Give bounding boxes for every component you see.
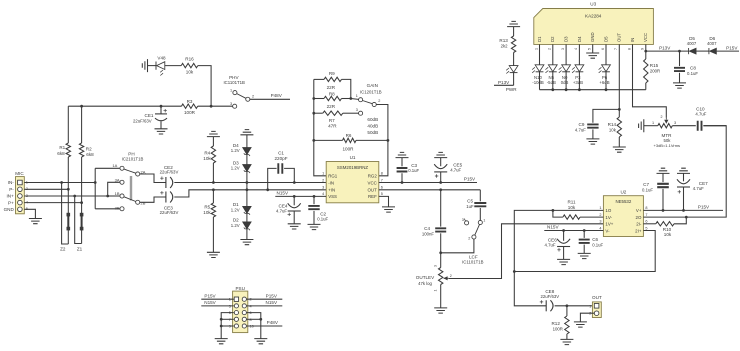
svg-text:3: 3	[434, 265, 438, 267]
svg-text:2: 2	[599, 213, 601, 217]
label P3	[575, 75, 581, 80]
ground below diodes	[240, 240, 253, 245]
ground (C6)	[578, 253, 591, 258]
label C7	[643, 182, 649, 187]
pin number 1 (U1)	[322, 172, 324, 176]
pin number 2 (MIC)	[26, 187, 28, 191]
svg-text:0.1uF: 0.1uF	[592, 242, 603, 247]
svg-text:PWR: PWR	[506, 87, 517, 92]
pin label VSS (U1)	[328, 194, 337, 199]
suppressor Z2	[62, 183, 71, 245]
junction C4 / OUT rail	[439, 188, 442, 191]
label 50dB	[367, 130, 378, 135]
svg-text:22R: 22R	[327, 85, 336, 90]
wire 1O output	[514, 210, 603, 271]
ground (PSU right)	[254, 339, 267, 344]
pin number 1 (PSU)	[229, 298, 231, 302]
svg-text:P48V: P48V	[271, 93, 283, 98]
pin label GND (MIC)	[4, 207, 15, 212]
label 0.1uF (C6)	[592, 242, 603, 247]
svg-text:-IN: -IN	[328, 180, 334, 185]
connector PSU pin 8	[242, 317, 246, 321]
junction C7 / V+	[662, 209, 665, 212]
IC U3 body	[534, 9, 654, 45]
pin label IN (U3)	[630, 38, 635, 42]
pin number 7 (PSU)	[229, 318, 231, 322]
label 0dB (N0)	[561, 80, 569, 85]
svg-text:C7: C7	[643, 182, 649, 187]
svg-text:N10: N10	[534, 75, 542, 80]
svg-text:KA2284: KA2284	[585, 14, 602, 19]
pin number 8 (U1)	[381, 172, 383, 176]
label N5	[549, 75, 555, 80]
svg-text:VCC: VCC	[368, 180, 377, 185]
svg-text:D2: D2	[550, 36, 555, 42]
svg-text:6k8: 6k8	[57, 151, 65, 156]
svg-text:SSM2019BRNZ: SSM2019BRNZ	[337, 165, 369, 170]
wire U3 OUT pin	[618, 44, 620, 109]
pin number 3 (OUTLEV)	[434, 265, 438, 267]
svg-text:-10dB: -10dB	[532, 80, 544, 85]
LED P6	[599, 44, 611, 89]
pin label D1 (U3)	[537, 36, 542, 42]
switch PHV pin1	[233, 91, 237, 95]
resistor R16	[181, 63, 198, 67]
pin number 3 (MIC)	[26, 194, 28, 198]
pin number 4 (MIC)	[26, 201, 28, 205]
pin number 3 (LCF)	[462, 218, 464, 222]
svg-text:2: 2	[548, 48, 552, 50]
label 22uF/63V (CE1)	[133, 119, 152, 124]
junction IN- / PH	[94, 181, 97, 184]
label 100R (R12)	[553, 327, 563, 332]
wire P- net	[24, 188, 68, 190]
switch PH mechanical link	[130, 176, 132, 201]
label +3dB (P3)	[573, 80, 583, 85]
label 22uF/63V (CE8)	[540, 294, 559, 299]
svg-text:1: 1	[483, 218, 485, 222]
pin number 9 (PSU)	[229, 325, 231, 329]
potentiometer OUTLEV	[439, 253, 449, 308]
svg-text:C9: C9	[579, 122, 585, 127]
svg-text:IC1201T1B: IC1201T1B	[360, 90, 382, 95]
svg-text:R13: R13	[499, 38, 508, 43]
svg-text:V48: V48	[157, 55, 166, 60]
connector PSU pin 5	[234, 311, 238, 315]
svg-text:3: 3	[561, 48, 565, 50]
op-amp U2 body	[603, 196, 643, 237]
net label P48V	[271, 93, 283, 98]
svg-text:1: 1	[434, 290, 438, 292]
svg-text:47k log: 47k log	[418, 281, 432, 286]
svg-text:IC1101T1B: IC1101T1B	[223, 80, 245, 85]
svg-text:1: 1	[599, 206, 601, 210]
wire P+ net	[24, 202, 81, 204]
capacitor CE1	[155, 106, 167, 129]
svg-text:1: 1	[322, 172, 324, 176]
svg-text:7: 7	[614, 48, 618, 50]
junction R8/R9	[349, 97, 352, 100]
svg-text:CE5: CE5	[453, 162, 462, 167]
svg-text:10k: 10k	[609, 127, 617, 132]
wire LED bus	[540, 89, 646, 91]
svg-text:3B: 3B	[115, 206, 120, 211]
label 1.2V (D3)	[231, 165, 240, 170]
junction LED bus x552	[551, 88, 554, 91]
pin number 4 (U2)	[599, 226, 601, 230]
label C6	[592, 237, 598, 242]
label R12	[551, 321, 560, 326]
label PHV	[229, 75, 239, 80]
junction R4 / rail	[212, 181, 215, 184]
pin number 2 (U3)	[548, 48, 552, 50]
resistor R13	[511, 27, 515, 66]
svg-text:N15V: N15V	[204, 300, 216, 305]
label 0.1uF (C2)	[317, 217, 328, 222]
label 1.2V (D1)	[231, 207, 240, 212]
label 22R (R9)	[327, 85, 336, 90]
label 2k2 (R13)	[501, 44, 509, 49]
svg-text:REF: REF	[368, 194, 377, 199]
svg-text:R8: R8	[329, 92, 335, 97]
label 22uF/63V (CE3)	[160, 210, 179, 215]
svg-text:2O: 2O	[636, 215, 642, 220]
ground above R13	[507, 21, 520, 26]
pin number 2 (OUT)	[589, 312, 591, 316]
capacitor CE7	[677, 173, 690, 210]
svg-text:0.1uF: 0.1uF	[408, 168, 419, 173]
pin label IN- (MIC)	[8, 180, 15, 185]
junction Z2 / IN-	[60, 181, 63, 184]
resistor R4	[211, 137, 215, 183]
svg-text:2: 2	[450, 274, 452, 278]
svg-text:U1: U1	[350, 155, 356, 160]
svg-text:OUT: OUT	[592, 295, 602, 300]
svg-text:D4: D4	[577, 36, 582, 42]
svg-text:OUTLEV: OUTLEV	[416, 275, 435, 280]
wire V+ / P15V (U2)	[643, 209, 723, 211]
label D4	[233, 143, 239, 148]
label 0.1uF (C7)	[642, 188, 653, 193]
label V48	[157, 55, 166, 60]
svg-text:4: 4	[574, 48, 578, 50]
svg-text:VSS: VSS	[328, 194, 337, 199]
ground (OUTLEV)	[434, 308, 447, 313]
LED V48	[148, 62, 182, 76]
wire OUT rail (U1)	[379, 189, 481, 191]
label 10k (R10)	[664, 232, 672, 237]
label D3	[233, 160, 239, 165]
resistor R6	[314, 138, 388, 142]
label CE5	[453, 162, 462, 167]
switch PHV pin3	[233, 104, 237, 108]
svg-text:2B: 2B	[141, 201, 146, 206]
svg-text:N5: N5	[549, 75, 555, 80]
ground (C8)	[673, 83, 686, 88]
svg-text:P13V: P13V	[498, 80, 510, 85]
pin number 7 (U2)	[645, 213, 647, 217]
junction Z1 / IN+	[73, 195, 76, 198]
label CE2	[164, 165, 173, 170]
pin label +IN (U1)	[328, 188, 335, 193]
label PH	[128, 152, 134, 157]
junction R5 / rail	[212, 188, 215, 191]
switch PH pin 2A	[136, 172, 140, 176]
net label N15V (U2)	[547, 225, 559, 230]
wire phantom top rail	[68, 105, 181, 107]
svg-text:100R: 100R	[184, 110, 196, 115]
resistor R2	[79, 106, 83, 243]
net label N15V (PSU4)	[266, 300, 278, 305]
pin number 2 (OUTLEV)	[450, 274, 452, 278]
svg-text:10k: 10k	[203, 156, 211, 161]
svg-text:P15V: P15V	[266, 293, 278, 298]
label +6dB (P6)	[599, 80, 609, 85]
label 60dB	[367, 117, 378, 122]
label CE7	[699, 181, 708, 186]
wire VSS / N15V	[275, 195, 326, 197]
svg-text:7: 7	[645, 213, 647, 217]
wire wiper to U2 1V+	[449, 224, 604, 279]
label KA2284	[585, 14, 602, 19]
label D6	[709, 36, 715, 41]
label 4.7uF (CE4)	[276, 208, 287, 213]
svg-text:3: 3	[356, 108, 358, 112]
net label P15V (U2)	[698, 205, 710, 210]
label 0.1uF (C3)	[408, 168, 419, 173]
label 10k (R11)	[568, 205, 576, 210]
svg-text:1.2V: 1.2V	[231, 148, 240, 153]
resistor R14	[617, 109, 621, 147]
pin number 3 (PHV)	[230, 102, 232, 106]
wire PH 1B stub	[108, 195, 120, 197]
svg-text:N15V: N15V	[277, 191, 289, 196]
ground (C2)	[308, 224, 321, 229]
svg-text:3: 3	[322, 186, 324, 190]
capacitor C7	[657, 173, 669, 210]
pin label D5 (U3)	[603, 36, 608, 42]
label -5dB (N5)	[547, 80, 556, 85]
svg-text:3: 3	[599, 220, 601, 224]
svg-text:220pF: 220pF	[274, 156, 287, 161]
label 4.7uF (C10)	[695, 111, 706, 116]
junction C6 / V-	[583, 229, 586, 232]
svg-text:100R: 100R	[343, 147, 355, 152]
svg-text:4.7uF: 4.7uF	[545, 243, 556, 248]
label R8	[329, 92, 335, 97]
capacitor C4	[435, 190, 446, 253]
label PSU	[235, 286, 244, 291]
svg-text:2: 2	[661, 115, 663, 119]
junction LED bus x606	[605, 88, 608, 91]
pin number 2 (LCF)	[468, 237, 470, 241]
svg-text:1: 1	[230, 88, 232, 92]
LED N0	[559, 44, 571, 89]
label 0.1uF (C8)	[687, 71, 698, 76]
svg-text:CE6: CE6	[548, 237, 557, 242]
switch GAIN pin2	[372, 102, 376, 106]
ground (V48 LED)	[142, 59, 147, 72]
label IC1101T1B (LCF)	[462, 260, 484, 265]
svg-text:GND: GND	[590, 32, 595, 42]
pin number 7 (U1)	[381, 178, 383, 182]
label 6k8 (R1)	[57, 151, 65, 156]
svg-text:1A: 1A	[112, 163, 117, 168]
capacitor C6	[579, 231, 590, 254]
label +3dB=1.1Vrms	[654, 143, 681, 148]
ground below R5	[207, 252, 220, 257]
wire PSU pin2 P15V	[247, 298, 283, 300]
junction VCC / R15	[644, 50, 647, 53]
svg-text:5: 5	[381, 192, 383, 196]
pin number 5 (MIC)	[26, 207, 28, 211]
pin number 8 (U3)	[627, 48, 631, 50]
label 4007 (D6)	[707, 41, 717, 46]
wire IN+ net	[24, 195, 107, 197]
resistor R11	[553, 210, 604, 219]
svg-text:4007: 4007	[707, 41, 717, 46]
svg-text:100R: 100R	[553, 327, 563, 332]
net label N15V (U1)	[277, 191, 289, 196]
ground (CE6)	[557, 259, 570, 264]
pin label GND (U3)	[590, 32, 595, 42]
svg-text:5: 5	[645, 226, 647, 230]
switch PHV pin2	[246, 97, 250, 101]
wire 2O output	[643, 126, 726, 217]
svg-text:4007: 4007	[687, 41, 697, 46]
ground above R4	[207, 131, 220, 136]
svg-text:1: 1	[356, 94, 358, 98]
pin label 1V- (U2)	[605, 215, 612, 220]
svg-text:1V+: 1V+	[605, 222, 613, 227]
label 47k log (OUTLEV)	[418, 281, 432, 286]
net label P13V (PWR)	[498, 80, 510, 85]
junction R6 / RG2	[387, 139, 390, 142]
svg-text:N0: N0	[562, 75, 568, 80]
pin number 5 (U3)	[588, 48, 592, 50]
switch GAIN lever	[363, 101, 373, 104]
svg-text:Z1: Z1	[77, 247, 83, 252]
net label P15V (PSU1)	[204, 293, 216, 298]
pin number 3 (PSU)	[229, 304, 231, 308]
label R16	[185, 57, 194, 62]
label 220pF (C1)	[274, 156, 287, 161]
svg-text:47R: 47R	[328, 124, 337, 129]
pin label OUT (U3)	[617, 33, 622, 42]
pin label D4 (U3)	[577, 36, 582, 42]
connector MIC body	[16, 177, 25, 214]
label R9	[329, 71, 335, 76]
svg-text:C5: C5	[467, 199, 473, 204]
pin number 2 (PSU)	[250, 298, 252, 302]
label R15	[650, 63, 659, 68]
capacitor C10	[698, 121, 727, 131]
label U3	[590, 2, 596, 7]
pin label VCC (U1)	[368, 180, 377, 185]
label 1uF (C5)	[466, 204, 474, 209]
svg-text:P13V: P13V	[659, 45, 671, 50]
pin label OUT (U1)	[368, 188, 378, 193]
svg-text:OUT: OUT	[368, 188, 378, 193]
svg-text:2k2: 2k2	[501, 44, 509, 49]
svg-text:1O: 1O	[605, 208, 611, 213]
svg-text:6: 6	[601, 48, 605, 50]
svg-text:N15V: N15V	[547, 225, 559, 230]
pin number 8 (PSU)	[250, 318, 252, 322]
pin number 10 (PSU)	[250, 325, 254, 329]
capacitor CE5	[434, 158, 447, 183]
switch PH pin 1B	[120, 194, 124, 198]
junction C8 / P13V	[678, 50, 681, 53]
connector MIC pin 1	[18, 180, 23, 185]
pin number 3 (GAIN)	[356, 108, 358, 112]
label MIC	[15, 171, 24, 176]
svg-text:P3: P3	[575, 75, 581, 80]
wire rail +IN	[213, 189, 326, 191]
svg-text:D3: D3	[564, 36, 569, 42]
connector MIC pin 3	[18, 194, 23, 199]
wire PSU pin4 N15V	[247, 305, 283, 307]
svg-text:2: 2	[252, 94, 254, 98]
label GAIN	[367, 83, 378, 88]
label 22uF/63V (CE2)	[160, 170, 179, 175]
op-amp U1 body	[326, 162, 379, 203]
diode D1	[243, 206, 252, 222]
junction LED bus x566	[565, 88, 568, 91]
label OUTLEV	[416, 275, 435, 280]
label 50k (MTR)	[664, 138, 672, 143]
ground (R12)	[560, 339, 573, 344]
svg-text:9: 9	[641, 48, 645, 50]
svg-text:22uF/63V: 22uF/63V	[160, 210, 179, 215]
net label N15V (PSU3)	[204, 300, 216, 305]
pin number 2 (GAIN)	[378, 99, 380, 103]
svg-text:4.7uF: 4.7uF	[695, 111, 706, 116]
label R14	[608, 122, 617, 127]
svg-text:RG2: RG2	[368, 174, 378, 179]
wire diode column rails	[246, 183, 248, 207]
label 22R (R8)	[327, 104, 336, 109]
svg-text:R5: R5	[204, 205, 210, 210]
svg-text:R4: R4	[204, 151, 210, 156]
wire RG1 bus	[314, 79, 326, 175]
connector OUT body	[592, 302, 601, 318]
switch LCF pin2	[472, 235, 476, 239]
svg-text:40dB: 40dB	[367, 124, 378, 129]
connector MIC pin 5	[18, 207, 23, 212]
label 47R (R7)	[328, 124, 337, 129]
wire IN- net	[24, 182, 95, 184]
pin label 3B	[115, 206, 120, 211]
diode D6	[709, 48, 739, 54]
svg-text:1B: 1B	[115, 191, 120, 196]
label 100R (R6)	[343, 147, 355, 152]
capacitor C1	[268, 163, 295, 190]
junction IN+ / PH	[106, 195, 109, 198]
label R7	[329, 118, 335, 123]
pin number 2 (U1)	[322, 178, 324, 182]
label CE4	[279, 203, 288, 208]
svg-text:200R: 200R	[650, 69, 660, 74]
svg-text:U2: U2	[620, 189, 626, 194]
label N0	[562, 75, 568, 80]
pin label 3A	[115, 178, 120, 183]
connector PSU pin 3	[234, 304, 238, 308]
label 10k (R5)	[203, 210, 211, 215]
wire PHV common to P48V	[250, 98, 290, 100]
junction PSU pin9	[220, 325, 223, 328]
wire GAIN common to RG2	[376, 105, 388, 176]
